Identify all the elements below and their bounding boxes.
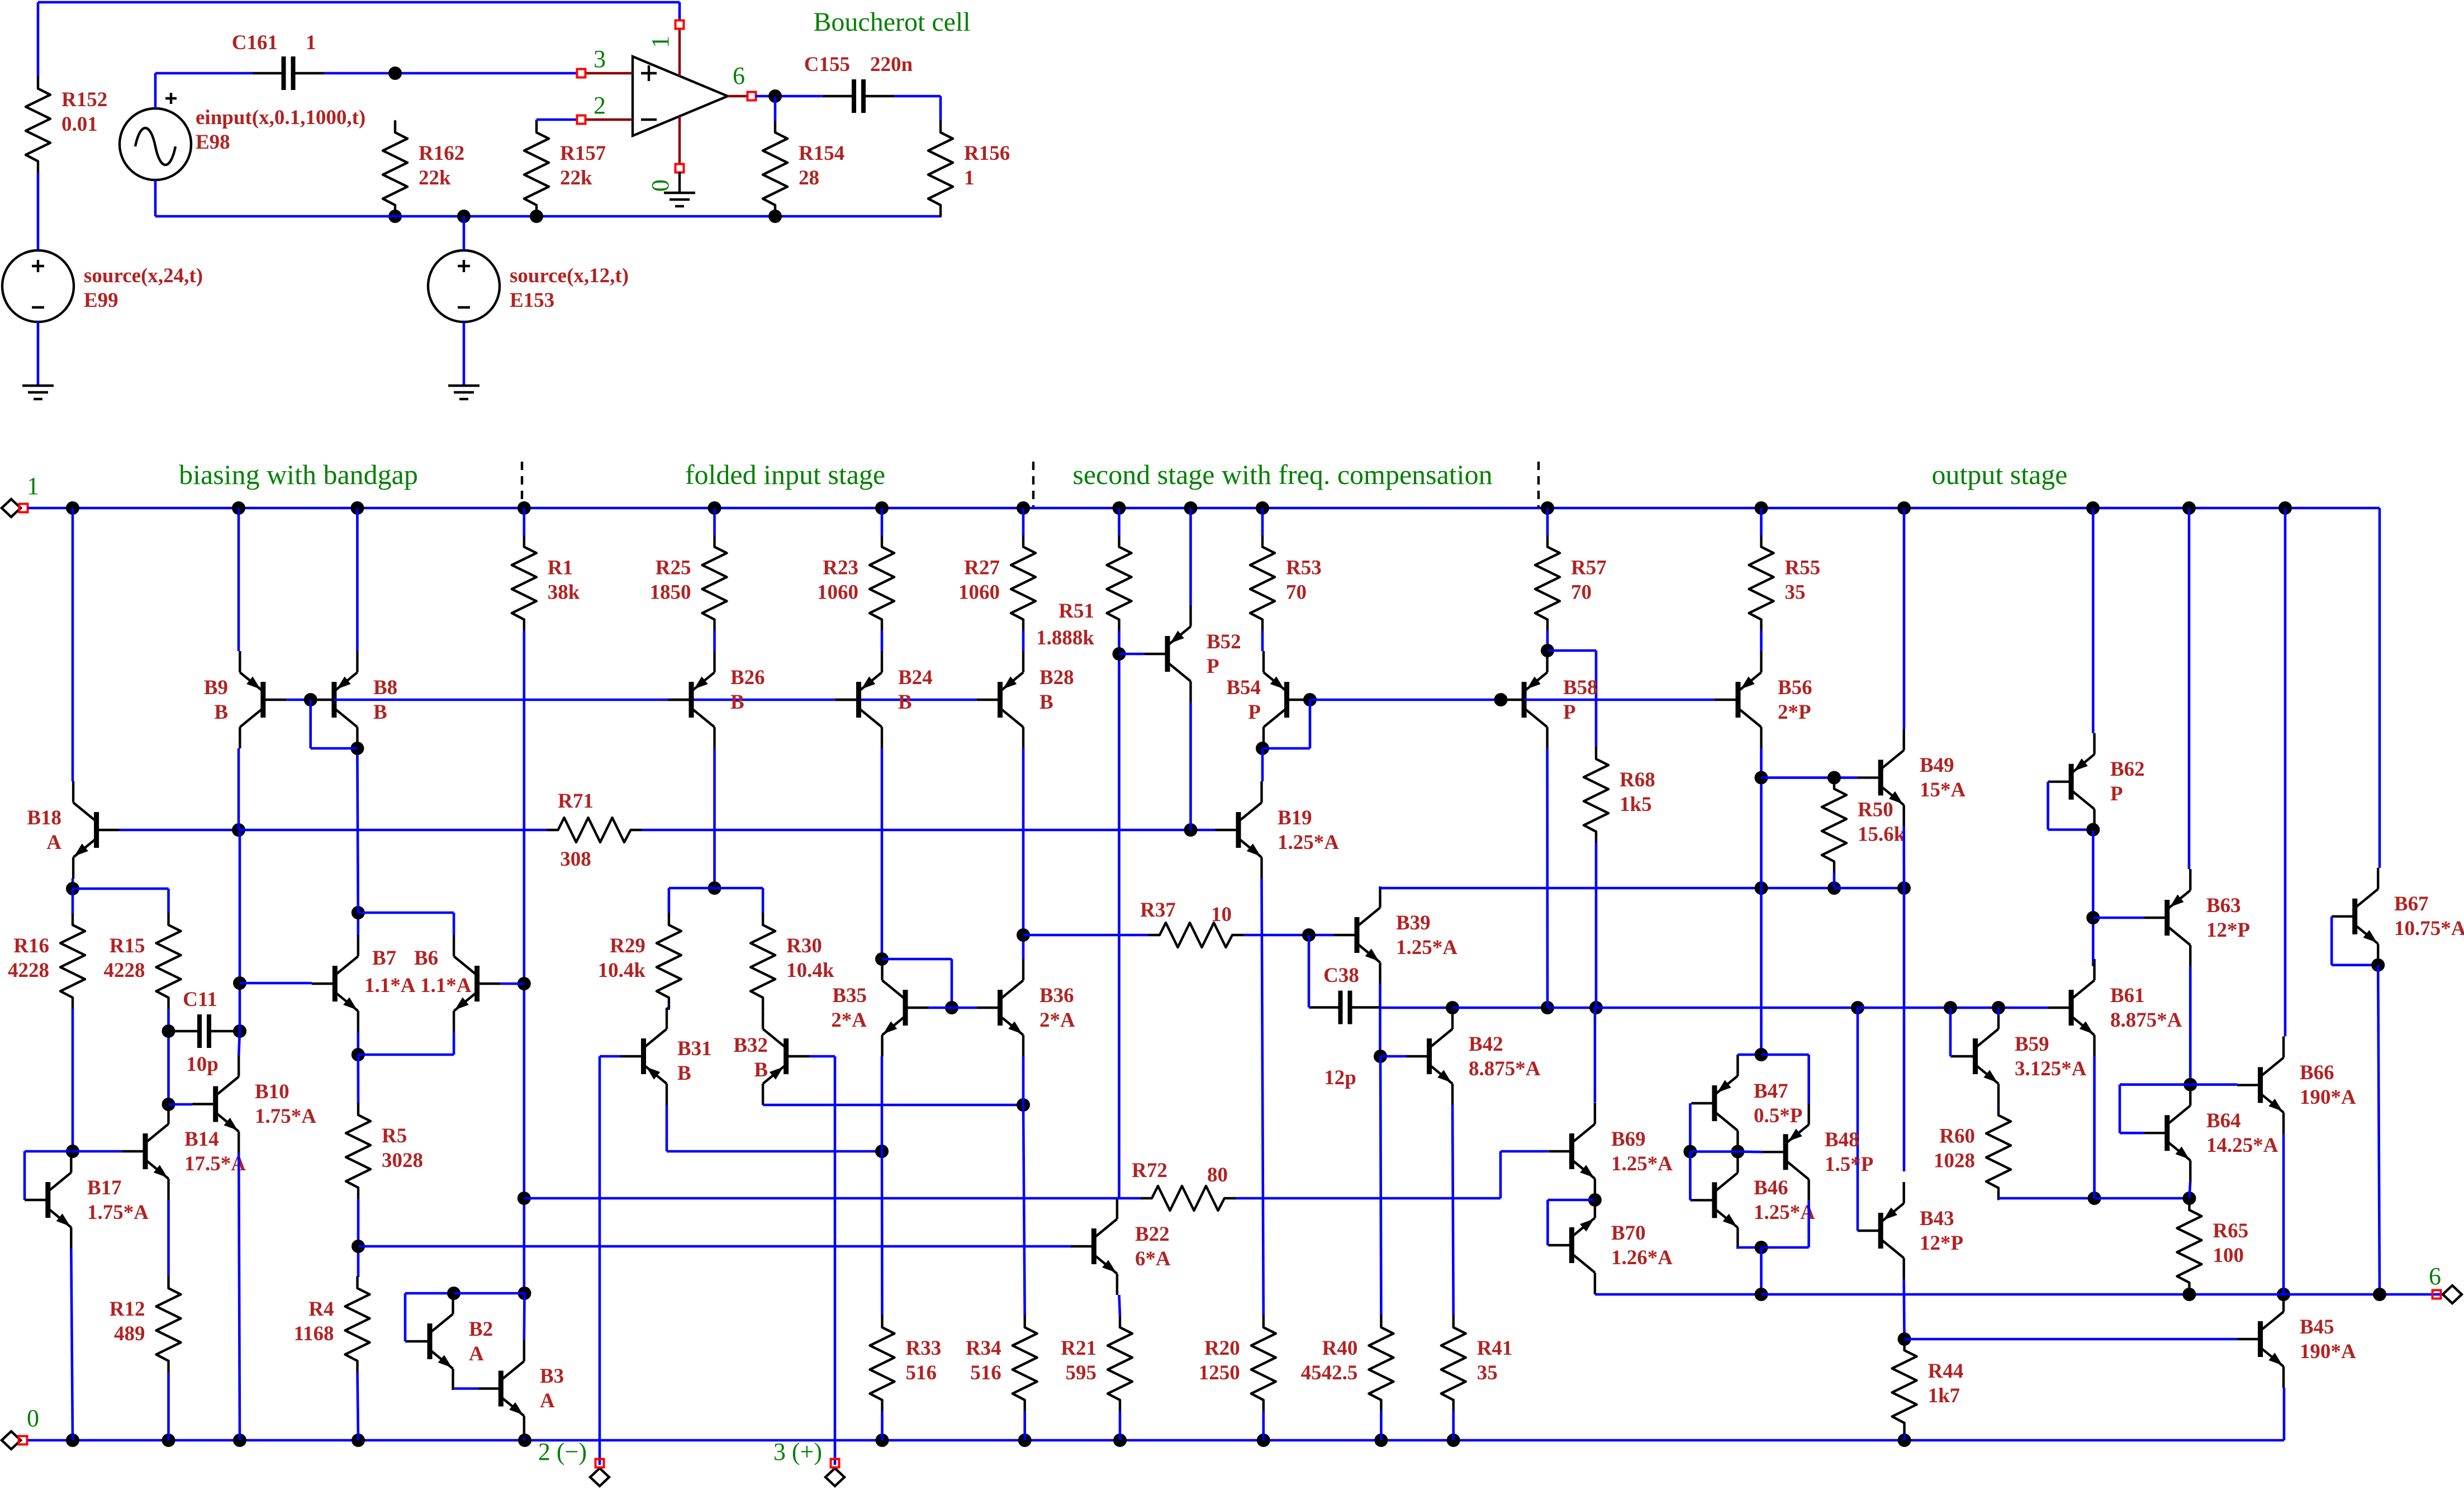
transistor B2 — [407, 1293, 453, 1390]
wire R50 bottom — [1833, 872, 1836, 888]
svg-text:P: P — [1207, 655, 1219, 678]
junction — [1018, 1434, 1032, 1447]
svg-text:R5: R5 — [382, 1124, 407, 1147]
junction — [518, 1192, 531, 1205]
wire B6 collector loop — [358, 1054, 454, 1056]
wire B70 emitter to output row — [1594, 1294, 1597, 1294]
svg-text:E98: E98 — [196, 131, 230, 154]
svg-text:R16: R16 — [13, 934, 49, 957]
wire row to B61 base — [1858, 1007, 2048, 1009]
resistor R29 — [598, 914, 681, 1009]
junction — [1374, 1050, 1387, 1063]
wire rail to B18 collector — [72, 508, 74, 781]
transistor B46 — [1691, 1151, 1737, 1249]
svg-text:516: 516 — [906, 1361, 937, 1384]
wire B46 base loop — [1689, 1152, 1692, 1200]
svg-text:10.4k: 10.4k — [598, 959, 646, 982]
junction — [2277, 1288, 2290, 1301]
wire B24 collector down — [881, 748, 884, 959]
wire R44 to rail — [1903, 1434, 1906, 1440]
dashed separator — [521, 462, 523, 507]
junction — [2086, 501, 2100, 515]
wire pnp base rail — [334, 699, 977, 701]
svg-text:B17: B17 — [87, 1176, 122, 1199]
voltage source E153 — [428, 250, 500, 322]
svg-text:R4: R4 — [308, 1298, 334, 1321]
resistor R16 — [8, 914, 85, 1009]
wire B28 collector down — [1022, 748, 1025, 959]
svg-text:1.26*A: 1.26*A — [1611, 1246, 1673, 1269]
svg-text:10: 10 — [1211, 903, 1232, 926]
resistor R157 — [524, 121, 606, 216]
svg-text:B32: B32 — [733, 1034, 768, 1057]
wire to B43 emitter — [1903, 888, 1906, 1171]
svg-text:15*A: 15*A — [1920, 779, 1966, 801]
wire B7 collector down — [357, 1032, 359, 1055]
svg-text:R55: R55 — [1785, 557, 1821, 580]
svg-text:B10: B10 — [255, 1080, 289, 1103]
svg-text:R157: R157 — [560, 142, 606, 165]
svg-text:B: B — [373, 701, 387, 724]
wire — [37, 2, 40, 78]
wire R15 bottom down — [167, 1009, 170, 1103]
junction — [232, 501, 245, 515]
junction — [233, 1434, 246, 1447]
junction — [708, 881, 721, 895]
wire — [37, 322, 40, 385]
svg-text:35: 35 — [1785, 581, 1806, 604]
wire B22 collector to R72 — [1119, 1197, 1141, 1200]
junction — [1446, 1001, 1459, 1014]
junction — [875, 501, 889, 515]
svg-text:B18: B18 — [27, 806, 61, 829]
wire B67 diode loop — [2330, 917, 2333, 965]
junction — [1683, 1145, 1697, 1159]
svg-text:6: 6 — [2429, 1263, 2441, 1290]
wire op-amp ground — [678, 172, 681, 192]
wire bias node to B22 base — [358, 1245, 1073, 1248]
wire B18 base — [120, 829, 239, 832]
wire R16 bottom to B17 collector — [72, 1009, 74, 1151]
transistor B9 — [240, 651, 286, 748]
wire B43 collector to R44 — [1902, 1279, 1906, 1339]
wire to B63 base — [2093, 917, 2144, 919]
junction — [352, 1240, 365, 1253]
wire B6 emitter loop — [358, 912, 454, 914]
svg-text:8.875*A: 8.875*A — [2110, 1009, 2182, 1032]
node 0 ground rail — [28, 1439, 2284, 1442]
junction — [1256, 501, 1269, 515]
svg-text:1.1*A: 1.1*A — [364, 974, 416, 997]
ground — [22, 386, 54, 399]
junction — [1897, 881, 1911, 895]
svg-text:1.25*A: 1.25*A — [1396, 936, 1457, 959]
svg-text:70: 70 — [1286, 581, 1307, 604]
svg-text:A: A — [469, 1342, 484, 1365]
junction — [1184, 501, 1198, 515]
svg-text:B: B — [730, 691, 744, 714]
wire B69 emitter to B70 base — [1547, 1199, 1595, 1202]
svg-text:10p: 10p — [186, 1053, 219, 1076]
junction — [233, 976, 246, 990]
wire B47 emitter row — [1737, 1054, 1761, 1056]
wire B47/B46 bases — [1690, 1150, 1737, 1153]
wire down to output row — [1760, 1247, 1763, 1294]
transistor B58 — [1501, 651, 1547, 748]
wire R40 to rail — [1380, 1411, 1383, 1440]
junction — [875, 1145, 889, 1158]
op-amp pin 6 — [748, 92, 756, 101]
svg-text:E99: E99 — [84, 289, 118, 312]
transistor B61 — [2048, 959, 2095, 1056]
junction — [1302, 928, 1316, 942]
wire B54 diode loop — [1262, 747, 1310, 750]
wire row to B43 base — [1857, 1008, 1859, 1231]
svg-text:B24: B24 — [898, 666, 933, 689]
wire R12 to rail — [167, 1372, 170, 1440]
wire B7 emitter up — [357, 913, 359, 935]
transistor B42 — [1406, 1008, 1452, 1105]
resistor R162 — [383, 121, 464, 216]
wire B48 collector up — [1762, 1246, 1809, 1249]
transistor B52 — [1145, 605, 1191, 703]
resistor R25 — [650, 536, 727, 631]
transistor B39 — [1334, 886, 1380, 984]
junction — [352, 906, 365, 919]
junction — [162, 1434, 175, 1447]
svg-text:B9: B9 — [204, 676, 228, 699]
svg-text:10.4k: 10.4k — [786, 959, 834, 982]
svg-text:B45: B45 — [2300, 1316, 2334, 1339]
svg-text:22k: 22k — [560, 167, 592, 189]
junction — [1541, 1001, 1554, 1014]
svg-text:0: 0 — [27, 1404, 39, 1432]
wire B7 base — [240, 982, 312, 985]
transistor B35 — [882, 959, 929, 1056]
svg-text:B39: B39 — [1396, 912, 1431, 934]
junction — [2086, 823, 2100, 837]
wire B9 collector down — [238, 748, 240, 830]
svg-text:folded input stage: folded input stage — [685, 459, 885, 490]
svg-text:output stage: output stage — [1931, 459, 2067, 490]
transistor B18 — [73, 781, 120, 879]
junction — [1827, 771, 1841, 784]
svg-text:8.875*A: 8.875*A — [1469, 1057, 1541, 1080]
resistor R4 — [294, 1277, 370, 1372]
resistor R53 — [1250, 536, 1322, 631]
wire B45 collector to output — [2282, 1290, 2285, 1294]
junction — [457, 210, 471, 223]
transistor B10 — [192, 1056, 239, 1153]
svg-text:489: 489 — [114, 1322, 145, 1345]
transistor B69 — [1549, 1103, 1595, 1200]
wire to B45 base — [1905, 1338, 2238, 1341]
resistor R41 — [1441, 1316, 1513, 1411]
junction — [945, 1001, 958, 1014]
junction — [2278, 501, 2292, 515]
svg-text:3028: 3028 — [382, 1149, 423, 1172]
svg-text:C11: C11 — [183, 988, 217, 1011]
wire R34 to rail — [1023, 1411, 1026, 1440]
transistor B26 — [668, 651, 715, 748]
junction — [518, 1287, 531, 1300]
junction — [875, 952, 889, 966]
svg-text:4542.5: 4542.5 — [1301, 1361, 1358, 1384]
svg-text:biasing with bandgap: biasing with bandgap — [179, 459, 418, 490]
op-amp pin 3 — [577, 69, 586, 78]
wire — [37, 173, 40, 251]
wire B36 collector to R37 — [1023, 934, 1148, 937]
wire B2 diode loop — [405, 1292, 454, 1295]
transistor B48 — [1763, 1103, 1809, 1200]
wire E153 bottom — [463, 322, 466, 385]
wire rail to R25 — [713, 508, 716, 536]
transistor B62 — [2048, 733, 2095, 831]
wire B52 collector to B19 base — [1189, 703, 1192, 830]
wire row to R68 bottom — [1547, 1007, 1596, 1009]
wire B58 collector down — [1546, 748, 1549, 1008]
junction — [352, 1434, 365, 1447]
svg-text:1k7: 1k7 — [1928, 1384, 1960, 1407]
svg-text:2*P: 2*P — [1778, 701, 1811, 724]
wire B3 collector up — [523, 1293, 525, 1340]
resistor R154 — [763, 121, 844, 216]
svg-text:1.25*A: 1.25*A — [1611, 1152, 1673, 1175]
transistor B56 — [1715, 651, 1762, 748]
wire B2 emitter to B3 base — [454, 1387, 478, 1390]
wire rail to R51 — [1118, 508, 1121, 536]
wire — [2377, 866, 2380, 869]
svg-text:80: 80 — [1207, 1164, 1228, 1187]
svg-text:A: A — [46, 831, 61, 854]
svg-text:12*P: 12*P — [1920, 1232, 1963, 1255]
junction — [1755, 1288, 1768, 1301]
junction — [350, 501, 364, 515]
svg-text:B59: B59 — [2015, 1033, 2049, 1056]
svg-text:A: A — [540, 1389, 555, 1412]
wire R72 to B69 base — [1236, 1197, 1501, 1200]
wire B54 base to B58 base — [1310, 699, 1501, 701]
svg-text:R34: R34 — [966, 1337, 1001, 1360]
node 1 supply rail — [28, 507, 2380, 510]
resistor R30 — [751, 914, 834, 1009]
junction — [1898, 1434, 1911, 1447]
junction — [518, 1434, 531, 1447]
transistor B63 — [2144, 869, 2190, 966]
wire R30 to B32 collector — [762, 1008, 765, 1009]
svg-text:2: 2 — [594, 92, 606, 119]
port 3 (+) — [825, 1468, 844, 1486]
op-amp pin 1 — [676, 21, 684, 29]
wire B39 emitter down — [1379, 984, 1381, 1056]
svg-text:100: 100 — [2213, 1244, 2244, 1267]
svg-text:22k: 22k — [419, 167, 451, 189]
svg-text:1.75*A: 1.75*A — [87, 1201, 149, 1224]
wire rail to B9 emitter — [238, 508, 240, 651]
wire R55 to B56 emitter — [1760, 631, 1763, 652]
junction — [352, 1048, 365, 1061]
wire output row node 6 — [1762, 1293, 2441, 1296]
svg-text:1: 1 — [27, 472, 39, 500]
wire rail to B8 emitter — [356, 508, 359, 651]
wire to op-amp pin 1 — [678, 2, 681, 21]
svg-text:B49: B49 — [1920, 754, 1954, 777]
svg-text:B31: B31 — [677, 1037, 712, 1060]
svg-text:B67: B67 — [2394, 893, 2429, 915]
junction — [1992, 1001, 2005, 1014]
wire rail to R23 — [881, 508, 884, 536]
junction — [2373, 1288, 2386, 1301]
svg-text:1: 1 — [306, 31, 316, 54]
junction — [66, 501, 79, 515]
wire rail to B52 emitter — [1189, 508, 1192, 605]
resistor R27 — [958, 536, 1036, 631]
resistor R152 — [26, 78, 50, 173]
capacitor C11 — [169, 1014, 240, 1048]
wire to R68 — [1547, 649, 1596, 652]
wire rail right corner down — [2378, 508, 2381, 868]
wire B18 emitter down — [72, 879, 74, 889]
op-amp U1 — [585, 29, 748, 164]
junction — [1113, 647, 1126, 661]
wire B67 emitter to output row — [2378, 965, 2380, 1294]
svg-text:2 (−): 2 (−) — [538, 1438, 587, 1465]
junction — [1541, 644, 1554, 657]
svg-text:B62: B62 — [2110, 758, 2145, 781]
wire feedback row 2144 — [524, 1197, 1119, 1200]
wire B62 collector to B61 collector — [2092, 831, 2095, 966]
wire B8 collector to B7/B6 emitters — [357, 756, 358, 913]
svg-text:10.75*A: 10.75*A — [2394, 917, 2464, 940]
svg-text:190*A: 190*A — [2300, 1340, 2356, 1363]
junction — [1374, 1434, 1388, 1447]
wire B35/B36 base link — [929, 1007, 977, 1009]
wire B59 emitter to R60 — [1997, 1104, 2000, 1105]
junction — [1589, 1001, 1603, 1014]
svg-text:1.25*A: 1.25*A — [1278, 831, 1339, 854]
junction — [1447, 1434, 1460, 1447]
svg-text:0.01: 0.01 — [61, 113, 98, 136]
junction — [162, 1024, 175, 1038]
svg-text:B36: B36 — [1039, 984, 1074, 1007]
transistor B49 — [1858, 729, 1904, 826]
resistor R15 — [104, 914, 181, 1009]
resistor R50 — [1822, 777, 1906, 872]
junction — [2183, 1078, 2197, 1092]
wire R65 to output row — [2188, 1294, 2191, 1294]
junction — [1755, 771, 1768, 784]
transistor B17 — [25, 1151, 71, 1249]
wire B54 collector to B19 — [1261, 748, 1264, 781]
wire R16 top — [72, 889, 74, 914]
svg-text:B14: B14 — [184, 1128, 219, 1151]
svg-text:R21: R21 — [1061, 1337, 1096, 1360]
junction — [1113, 1434, 1127, 1447]
wire R5 to R4 — [357, 1199, 360, 1277]
svg-text:4228: 4228 — [104, 959, 145, 982]
svg-text:R68: R68 — [1620, 768, 1655, 791]
svg-text:R40: R40 — [1322, 1337, 1358, 1360]
wire B18 base to R71 — [239, 829, 547, 832]
wire to R29 — [669, 887, 715, 890]
wire B6 base to R1 column — [500, 983, 524, 985]
wire to B48 base — [1737, 1150, 1762, 1153]
svg-text:R156: R156 — [964, 142, 1010, 165]
svg-text:17.5*A: 17.5*A — [184, 1152, 246, 1175]
svg-text:R152: R152 — [61, 88, 107, 111]
svg-text:1.25*A: 1.25*A — [1754, 1201, 1815, 1224]
resistor R37 — [1148, 923, 1243, 947]
wire R71 to B19 base — [642, 829, 1216, 832]
svg-text:1: 1 — [964, 167, 975, 189]
resistor R20 — [1199, 1316, 1276, 1411]
wire B19 emitter to R20 — [1262, 879, 1264, 1316]
junction — [1898, 1332, 1911, 1346]
wire to B42 base — [1380, 1055, 1406, 1058]
resistor R55 — [1749, 536, 1821, 631]
wire R37 to B39 base — [1243, 934, 1334, 937]
wire B59 collector up — [1997, 1008, 2000, 1016]
wire E153 top — [463, 216, 466, 250]
svg-text:B: B — [214, 701, 228, 724]
svg-text:R44: R44 — [1928, 1360, 1964, 1383]
svg-text:R1: R1 — [548, 557, 573, 580]
wire B14 base — [73, 1150, 122, 1153]
junction — [1944, 1001, 1957, 1014]
transistor B36 — [977, 959, 1023, 1056]
junction — [768, 89, 782, 103]
svg-text:B47: B47 — [1754, 1080, 1788, 1103]
wire B17 emitter to rail — [71, 1249, 73, 1440]
transistor B8 — [311, 651, 357, 748]
svg-text:B66: B66 — [2300, 1061, 2334, 1084]
wire E98 bottom — [154, 180, 157, 216]
junction — [1851, 1001, 1864, 1014]
wire B42 emitter to R41 — [1452, 1105, 1454, 1316]
svg-text:0.5*P: 0.5*P — [1754, 1104, 1802, 1127]
svg-text:2*A: 2*A — [831, 1009, 867, 1032]
resistor R71 — [547, 818, 642, 842]
svg-text:R72: R72 — [1132, 1159, 1167, 1182]
svg-text:B58: B58 — [1563, 676, 1598, 699]
transistor B45 — [2237, 1290, 2283, 1388]
junction — [2088, 1192, 2101, 1205]
junction — [1897, 501, 1911, 515]
svg-text:4228: 4228 — [8, 959, 49, 982]
junction — [66, 1145, 79, 1158]
transistor B24 — [835, 651, 882, 748]
wire B31 emitter to B35 emitter — [666, 1105, 668, 1151]
junction — [388, 67, 402, 80]
capacitor C155 — [823, 79, 894, 113]
wire B10 base — [169, 1103, 193, 1106]
junction — [768, 210, 782, 223]
svg-text:1.1*A: 1.1*A — [420, 974, 472, 997]
transistor B43 — [1858, 1182, 1904, 1279]
svg-text:R15: R15 — [110, 934, 145, 957]
dashed separator — [1032, 462, 1034, 507]
wire E98 to C161 — [154, 73, 157, 108]
svg-text:308: 308 — [560, 848, 591, 871]
wire port2 to B31 base — [599, 1056, 601, 1465]
capacitor C161 — [253, 56, 324, 90]
wire B39 base to C38 — [1308, 935, 1311, 1008]
wire to B48 emitter — [1762, 1054, 1809, 1056]
wire rail to B62 emitter — [2092, 508, 2095, 733]
resistor R68 — [1584, 748, 1655, 843]
wire R157 top — [535, 120, 538, 121]
wire R60 bottom row — [1997, 1198, 2000, 1199]
